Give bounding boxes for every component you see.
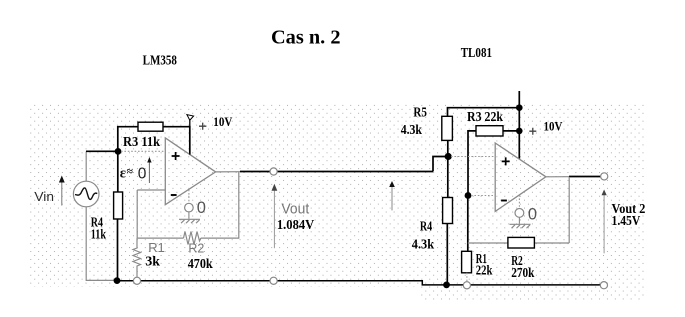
ground stub op-amp U2 (dotted) xyxy=(518,195,520,208)
op-amp U1 triangle xyxy=(165,138,215,205)
node junction dot input right xyxy=(445,153,452,160)
op-amp U1 minus input marker xyxy=(171,194,177,196)
arrow input right (stem) xyxy=(391,184,393,210)
svg-text:TL081: TL081 xyxy=(461,46,492,61)
wire: node up to R3 level (black) xyxy=(118,127,138,152)
wire: source bottom vertical + bottom horizontal (gray) xyxy=(86,207,115,281)
wire: output stub gray xyxy=(216,171,241,173)
op-amp U2 minus input marker xyxy=(501,200,507,202)
resistor R2 zigzag (gray) xyxy=(184,232,201,245)
wire: top horizontal to node (black) xyxy=(86,150,118,152)
svg-text:Vout: Vout xyxy=(281,201,310,218)
svg-text:R3 22k: R3 22k xyxy=(467,110,503,125)
terminal circle bottom right-1 xyxy=(463,282,470,289)
node junction dot bottom-left xyxy=(114,277,121,284)
svg-text:3k: 3k xyxy=(145,255,160,270)
wire: feedback bottom right segment (gray) xyxy=(201,172,239,238)
svg-text:10V: 10V xyxy=(544,118,563,133)
svg-text:11k: 11k xyxy=(91,227,107,242)
svg-text:0: 0 xyxy=(138,165,147,182)
wire: R3 left down to - node (black) xyxy=(468,131,476,196)
wire: R1 bottom stub (gray) xyxy=(466,273,468,282)
plus sign supply right xyxy=(529,128,536,135)
ground circle U1 xyxy=(185,203,194,212)
source V1 circle xyxy=(73,181,99,207)
wire: feedback right vertical (gray) xyxy=(568,177,570,243)
dotted grid background left xyxy=(29,104,420,287)
terminal circle bottom-mid xyxy=(270,277,277,284)
op-amp U1 plus input marker xyxy=(172,152,180,160)
svg-text:10V: 10V xyxy=(213,114,233,129)
wire: antenna stub xyxy=(189,120,191,128)
resistor R1 zigzag (gray) xyxy=(133,238,141,277)
wire: step up to node (black) xyxy=(433,157,448,172)
resistor R2 right (box) xyxy=(508,237,535,248)
node junction dot rail right xyxy=(443,282,450,289)
svg-text:≈: ≈ xyxy=(127,166,134,178)
wire: output stub U2 (gray) xyxy=(546,176,569,178)
svg-text:R2: R2 xyxy=(188,241,204,256)
terminal circle Vout xyxy=(270,168,277,175)
terminal circle bottom right-2 xyxy=(600,282,607,289)
node junction dot top-left xyxy=(115,148,122,155)
svg-text:0: 0 xyxy=(528,205,537,223)
svg-text:0: 0 xyxy=(197,199,206,217)
dotted grid background right xyxy=(420,104,646,302)
svg-text:R5: R5 xyxy=(413,105,427,120)
arrow epsilon (head) xyxy=(147,157,151,163)
wire: R5 top connection (black) xyxy=(448,108,520,117)
svg-text:1.084V: 1.084V xyxy=(277,218,314,233)
wire: supply pin into op-amp U1 (black) xyxy=(189,127,191,155)
bottom rail (black) xyxy=(120,281,600,285)
terminal circle Vout2 xyxy=(601,173,608,180)
wire: - input stub (gray) xyxy=(137,189,165,191)
node junction dot supply R3 xyxy=(516,128,523,135)
wire: node down to R4 (black) xyxy=(117,151,119,192)
svg-text:Cas n. 2: Cas n. 2 xyxy=(271,26,341,48)
wire: R3 right to supply riser (black) xyxy=(163,127,190,155)
op-amp U2 triangle xyxy=(495,143,546,211)
resistor R1 right (box) xyxy=(462,251,472,272)
arrow Vin (head) xyxy=(59,176,65,183)
resistor R4 right (box) xyxy=(443,198,453,224)
node junction dot minus right xyxy=(465,192,472,199)
wire: supply riser (black) xyxy=(518,91,520,159)
svg-text:Vin: Vin xyxy=(34,189,54,204)
wire: feedback bottom left segment (gray) xyxy=(137,237,183,239)
arrow epsilon (stem) xyxy=(148,161,150,183)
arrow Vin (stem) xyxy=(61,180,63,206)
svg-text:470k: 470k xyxy=(188,257,213,272)
svg-text:1.45V: 1.45V xyxy=(612,214,641,229)
wire: R3 right to supply (black) xyxy=(503,130,519,132)
ground symbol U1 xyxy=(179,212,200,223)
svg-text:22k: 22k xyxy=(476,262,493,277)
wire: + input (dotted gray) xyxy=(121,150,165,152)
wire: - input right (dotted gray) xyxy=(471,195,495,197)
resistor R3 (box) xyxy=(138,122,163,131)
ground stub op-amp U1 (dotted) xyxy=(188,190,190,204)
terminal circle bottom-left xyxy=(133,277,140,284)
arrow input right (head) xyxy=(389,181,395,187)
wire: output long horizontal (black) xyxy=(240,171,433,173)
wire: R4 bottom to rail (black) xyxy=(117,219,119,281)
svg-text:R3 11k: R3 11k xyxy=(123,135,160,150)
resistor R4 (box, left) xyxy=(114,192,123,219)
ground circle U2 xyxy=(515,209,524,218)
arrow Vout (head) xyxy=(272,184,278,191)
resistor R5 (box) xyxy=(442,116,453,140)
wire: + input right (dotted gray) xyxy=(451,156,495,158)
plus sign supply left xyxy=(199,123,206,130)
resistor R3 right (box) xyxy=(476,126,503,136)
source V1 sine waveform xyxy=(75,188,97,200)
svg-text:R4: R4 xyxy=(420,218,432,233)
ground symbol U2 xyxy=(510,217,531,228)
svg-text:4.3k: 4.3k xyxy=(412,237,435,252)
wire: feedback bottom (gray) xyxy=(468,242,569,244)
wire: - node down to R1 (black) xyxy=(467,196,469,252)
arrow Vout2 (stem) xyxy=(603,193,605,253)
antenna symbol +10V left xyxy=(187,115,194,121)
arrow Vout2 (head) xyxy=(602,190,607,196)
svg-text:270k: 270k xyxy=(511,265,535,280)
node junction dot supply top xyxy=(516,104,523,111)
svg-text:ε: ε xyxy=(120,166,126,182)
svg-text:R1: R1 xyxy=(148,240,165,255)
wire: R4 bottom to rail (black) xyxy=(446,224,448,285)
svg-text:LM358: LM358 xyxy=(143,54,177,69)
svg-text:4.3k: 4.3k xyxy=(401,122,423,137)
wire: feedback left vertical (gray) xyxy=(136,190,138,238)
wire: source top vertical (gray) xyxy=(85,152,87,182)
wire: output right (black) xyxy=(569,176,601,178)
arrow Vout (stem) xyxy=(273,187,275,248)
op-amp U2 plus input marker xyxy=(502,157,510,165)
wire: R5 bottom to node to R4 (black) xyxy=(447,140,449,197)
